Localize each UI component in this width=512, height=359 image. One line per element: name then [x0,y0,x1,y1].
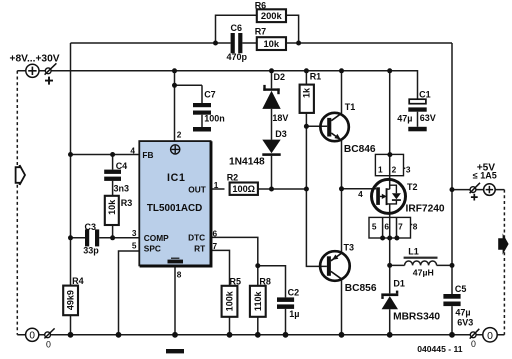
svg-text:0: 0 [487,331,493,342]
svg-text:D1: D1 [393,278,405,288]
svg-text:1: 1 [378,164,383,174]
svg-text:6: 6 [213,229,218,239]
svg-text:47µ: 47µ [455,308,470,318]
svg-text:R3: R3 [121,198,133,208]
svg-text:3: 3 [406,164,411,174]
svg-text:C4: C4 [116,161,128,171]
svg-text:R7: R7 [255,27,267,37]
svg-text:1N4148: 1N4148 [229,157,265,168]
svg-text:D2: D2 [274,72,286,82]
svg-text:IRF7240: IRF7240 [406,204,445,215]
svg-text:33p: 33p [83,245,99,255]
svg-text:47µ: 47µ [397,114,412,124]
svg-text:R4: R4 [72,276,84,286]
svg-text:SPC: SPC [144,244,161,254]
svg-text:6V3: 6V3 [457,318,473,328]
svg-text:110k: 110k [253,291,263,312]
svg-text:BC856: BC856 [345,283,377,294]
svg-text:8: 8 [177,270,182,280]
svg-text:10k: 10k [107,199,117,215]
svg-text:L1: L1 [408,247,419,257]
svg-text:T2: T2 [407,182,418,192]
svg-text:DTC: DTC [188,233,205,243]
svg-text:0: 0 [46,339,51,349]
svg-text:2: 2 [177,130,182,140]
svg-text:5: 5 [372,221,377,231]
svg-text:47µH: 47µH [413,268,434,278]
svg-text:C6: C6 [231,23,243,33]
svg-text:1k: 1k [302,87,312,98]
svg-text:7: 7 [213,241,218,251]
svg-text:IC1: IC1 [167,172,186,184]
svg-text:0: 0 [29,331,35,342]
svg-text:C5: C5 [455,284,467,294]
svg-text:+8V...+30V: +8V...+30V [10,53,60,64]
svg-text:R5: R5 [230,277,242,287]
svg-text:OUT: OUT [188,185,206,195]
svg-text:7: 7 [398,221,403,231]
svg-text:C2: C2 [288,288,300,298]
svg-text:≤ 1A5: ≤ 1A5 [473,170,497,180]
svg-text:5: 5 [132,241,137,251]
svg-text:TL5001ACD: TL5001ACD [147,203,202,214]
svg-text:T3: T3 [344,242,355,252]
svg-text:200k: 200k [261,10,283,21]
svg-text:100n: 100n [204,114,225,124]
svg-text:FB: FB [142,150,153,160]
svg-text:18V: 18V [272,113,288,123]
svg-text:8: 8 [413,221,418,231]
svg-text:49k9: 49k9 [66,290,76,310]
svg-text:63V: 63V [420,113,436,123]
svg-text:10k: 10k [263,38,279,49]
svg-text:4: 4 [358,189,363,199]
svg-text:2: 2 [392,164,397,174]
svg-text:0: 0 [471,339,476,349]
svg-text:C1: C1 [419,89,431,99]
svg-text:T1: T1 [345,102,356,112]
svg-text:6: 6 [384,221,389,231]
svg-text:470p: 470p [227,52,248,62]
svg-text:100Ω: 100Ω [232,184,255,194]
svg-text:R8: R8 [259,277,271,287]
svg-text:R2: R2 [227,173,239,183]
svg-text:R6: R6 [255,0,267,10]
svg-text:040445 - 11: 040445 - 11 [417,344,463,354]
svg-text:1: 1 [214,180,219,190]
svg-text:MBRS340: MBRS340 [393,312,440,323]
svg-text:BC846: BC846 [344,144,376,155]
svg-text:C7: C7 [204,90,216,100]
svg-text:4: 4 [130,146,135,156]
svg-text:C3: C3 [85,222,97,232]
svg-text:RT: RT [194,244,205,254]
svg-text:D3: D3 [275,129,287,139]
svg-text:3: 3 [132,228,137,238]
svg-text:3n3: 3n3 [114,184,130,194]
svg-text:R1: R1 [310,72,322,82]
svg-text:100k: 100k [225,290,235,311]
svg-text:1µ: 1µ [289,309,299,319]
svg-text:COMP: COMP [144,233,169,243]
